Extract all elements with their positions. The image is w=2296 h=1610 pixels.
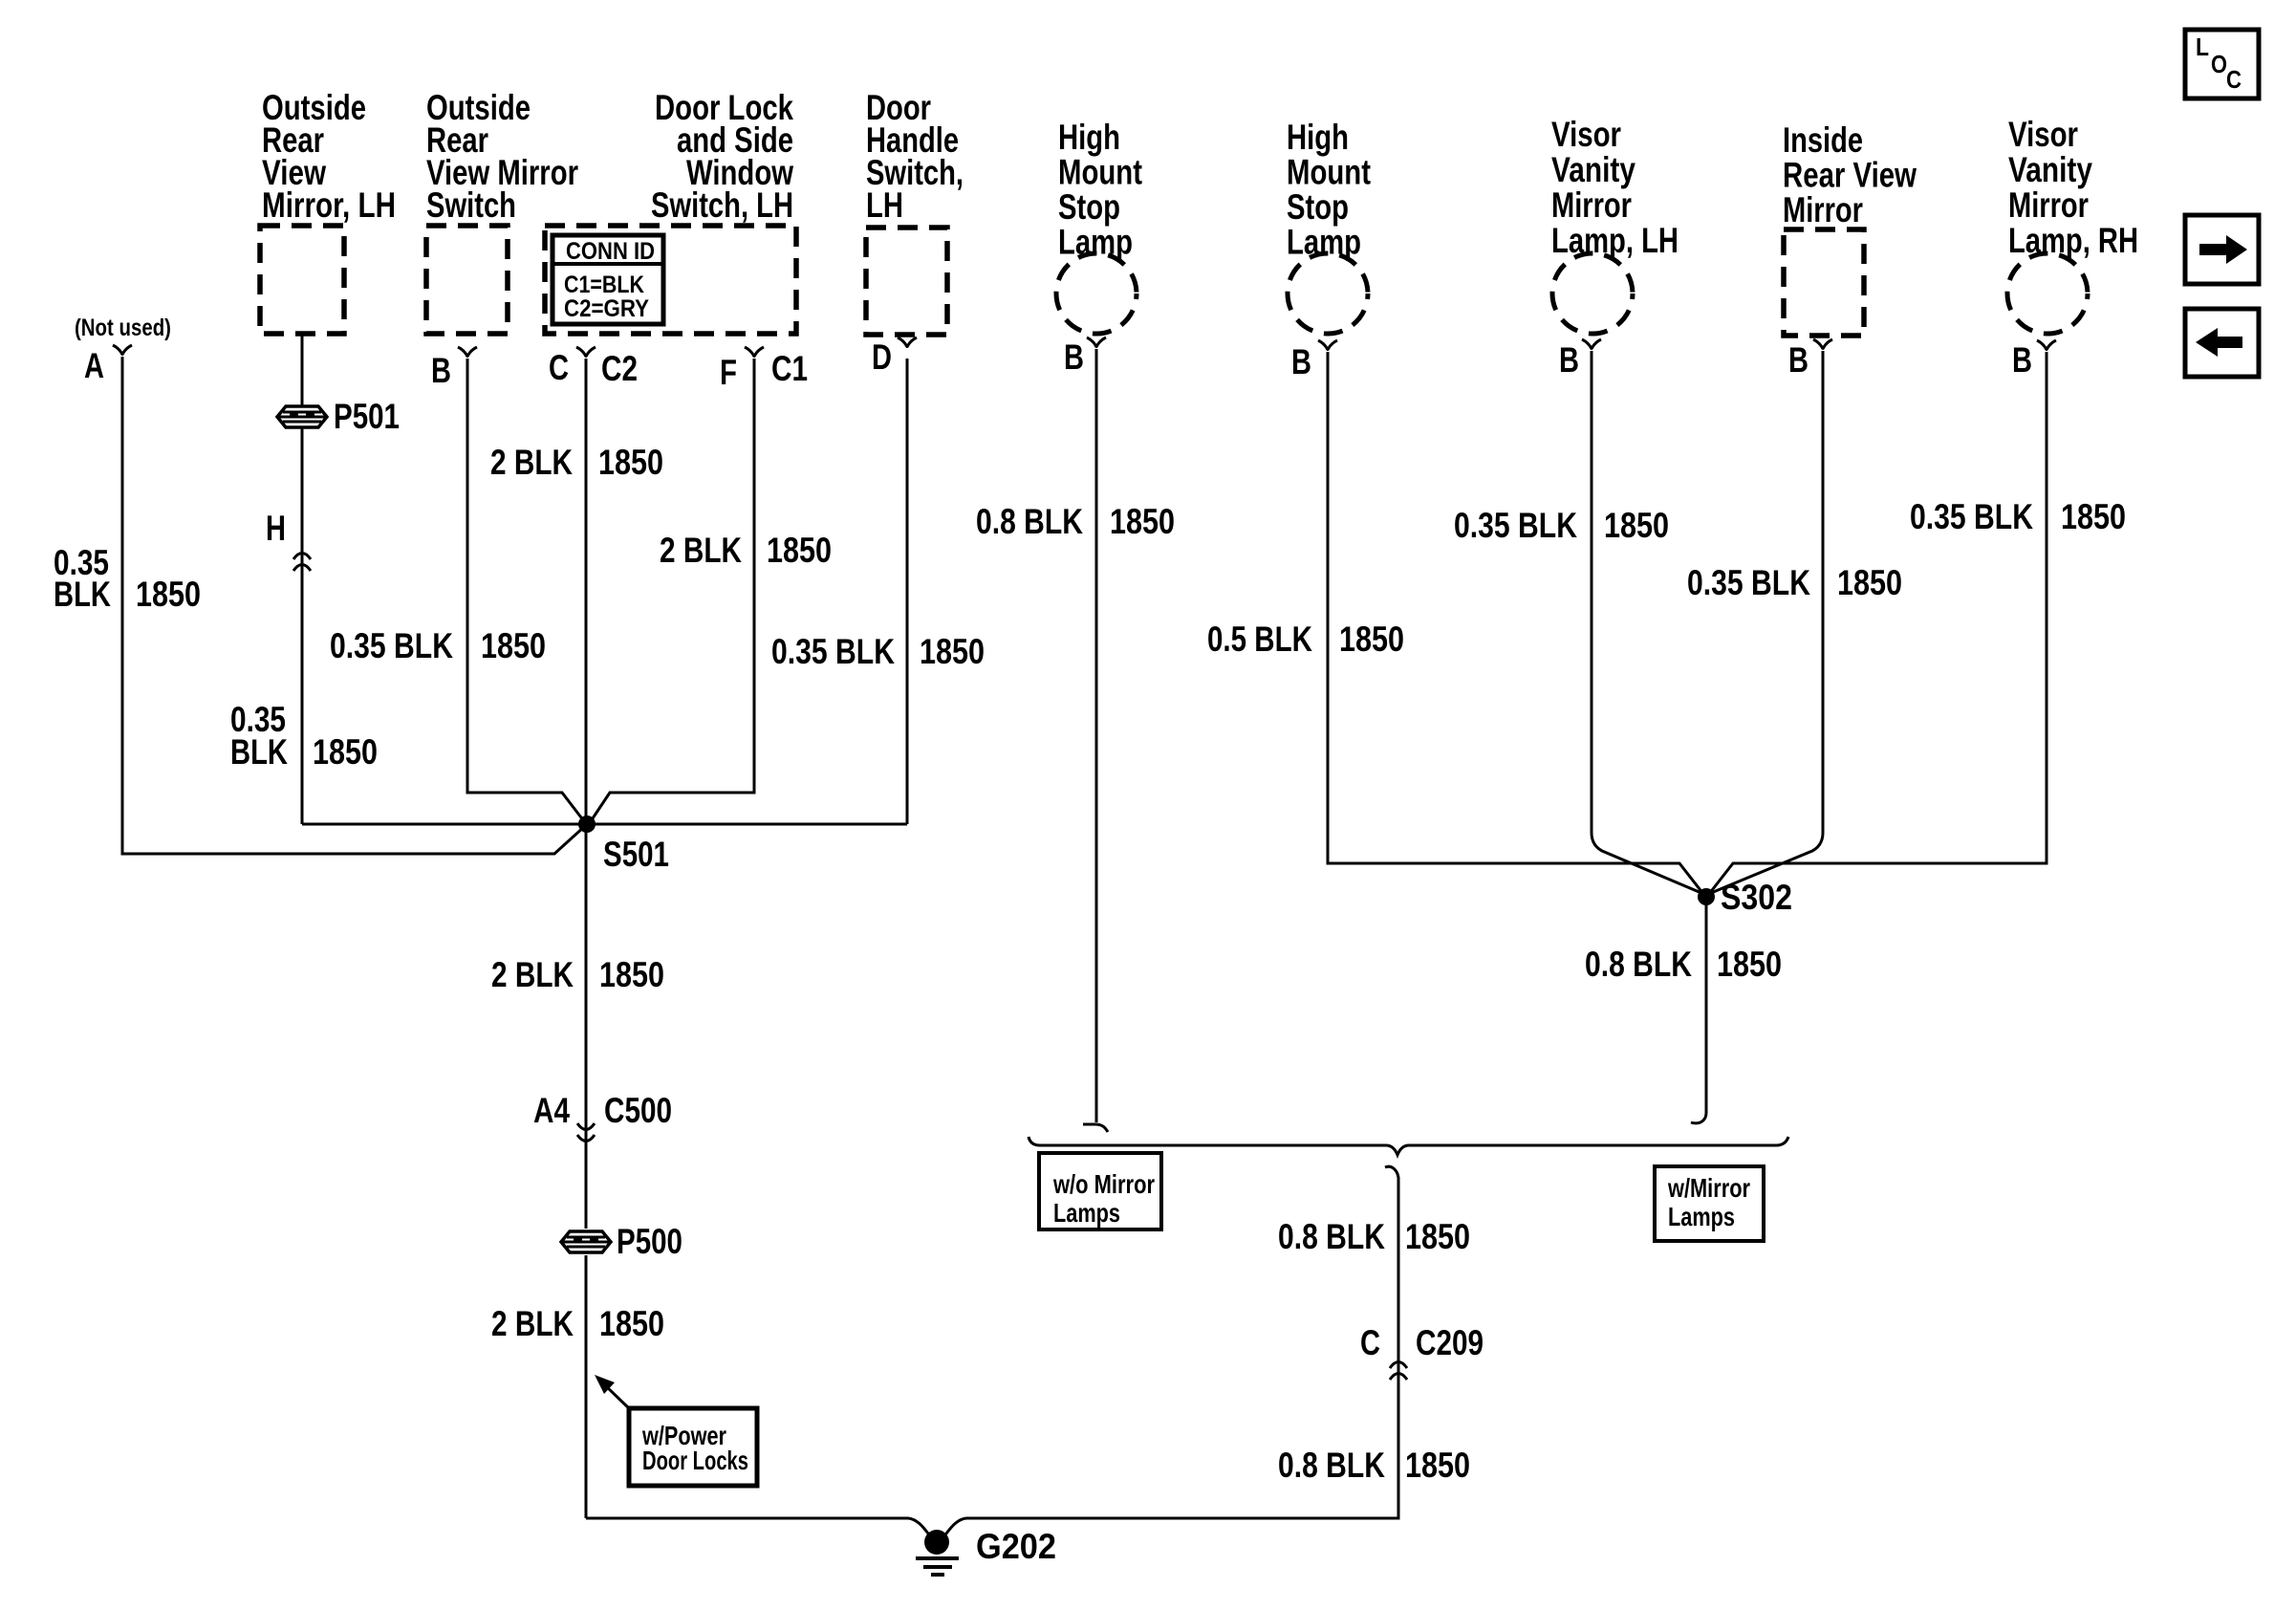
svg-text:0.35 BLK: 0.35 BLK	[330, 626, 453, 665]
splice S501	[578, 816, 596, 833]
pin fork A	[113, 345, 132, 355]
svg-text:1850: 1850	[1110, 502, 1175, 541]
wire from P500 right to G202	[586, 1518, 933, 1539]
svg-text:1850: 1850	[1339, 620, 1404, 659]
svg-text:C2=GRY: C2=GRY	[564, 295, 649, 322]
svg-text:0.8 BLK: 0.8 BLK	[1278, 1217, 1385, 1256]
svg-text:CONN ID: CONN ID	[566, 238, 655, 265]
svg-text:C500: C500	[604, 1091, 672, 1130]
svg-text:B: B	[1291, 342, 1311, 381]
svg-text:w/Mirror: w/Mirror	[1667, 1173, 1750, 1203]
pin fork B visor LH	[1582, 339, 1601, 349]
svg-text:F: F	[720, 353, 737, 392]
svg-text:A: A	[84, 346, 104, 385]
svg-text:1850: 1850	[313, 732, 378, 772]
svg-text:G202: G202	[976, 1527, 1056, 1566]
svg-text:1850: 1850	[1837, 563, 1902, 602]
svg-text:BLK: BLK	[54, 575, 111, 614]
connector box: Inside Rear View Mirror	[1784, 229, 1864, 336]
svg-text:High: High	[1058, 118, 1120, 157]
lamp symbol: Visor Vanity Mirror Lamp, RH	[2007, 253, 2088, 334]
wire inside mirror to S302	[1711, 351, 1823, 893]
connector chevron C209 (lower)	[1390, 1374, 1407, 1381]
pin fork C2	[576, 347, 596, 357]
svg-text:P501: P501	[334, 397, 400, 436]
svg-text:1850: 1850	[599, 1304, 664, 1343]
LOC legend box	[2185, 30, 2259, 98]
option box: w/o Mirror Lamps	[1039, 1153, 1161, 1229]
svg-text:2 BLK: 2 BLK	[491, 1304, 574, 1343]
svg-text:B: B	[1788, 340, 1809, 380]
svg-text:Mount: Mount	[1287, 153, 1371, 192]
svg-text:O: O	[2211, 50, 2227, 78]
grommet P500	[561, 1231, 611, 1252]
svg-text:B: B	[1064, 337, 1084, 377]
svg-text:1850: 1850	[2061, 497, 2126, 536]
lamp symbol: High Mount Stop Lamp (1)	[1056, 253, 1137, 334]
wire visor RH to S302	[1709, 352, 2047, 894]
connector chevron H (lower)	[293, 565, 311, 572]
wire S302 down to splice bus with hook	[1691, 897, 1706, 1123]
svg-text:Vanity: Vanity	[2008, 150, 2092, 189]
svg-text:C2: C2	[601, 349, 638, 388]
svg-text:1850: 1850	[1405, 1217, 1470, 1256]
wire stop lamp 2 to S302	[1328, 352, 1703, 894]
svg-text:Visor: Visor	[2008, 115, 2078, 154]
svg-text:0.35 BLK: 0.35 BLK	[1910, 497, 2033, 536]
pin fork B lamp2	[1318, 340, 1337, 350]
lamp symbol: Visor Vanity Mirror Lamp, LH	[1552, 253, 1633, 334]
svg-text:C209: C209	[1416, 1323, 1484, 1362]
pin fork B inside mirror	[1813, 339, 1832, 349]
svg-text:0.35 BLK: 0.35 BLK	[1454, 506, 1577, 545]
left arrow box	[2185, 309, 2259, 377]
svg-text:Stop: Stop	[1287, 187, 1349, 227]
svg-text:C: C	[1360, 1323, 1380, 1362]
CONN ID table	[552, 235, 663, 324]
svg-text:1850: 1850	[599, 955, 664, 994]
svg-text:BLK: BLK	[230, 732, 288, 772]
connector box: Outside Rear View Mirror Switch	[426, 226, 508, 334]
svg-text:Inside: Inside	[1783, 120, 1863, 160]
svg-text:Mirror: Mirror	[1783, 190, 1863, 229]
wire C2 / main ground wire through S501, C500, P500	[585, 359, 588, 1518]
svg-text:2 BLK: 2 BLK	[660, 531, 742, 570]
option box: w/Power Door Locks	[629, 1408, 757, 1486]
svg-text:1850: 1850	[481, 626, 546, 665]
svg-text:0.5 BLK: 0.5 BLK	[1207, 620, 1312, 659]
svg-text:Visor: Visor	[1551, 115, 1621, 154]
pin fork B visor RH	[2037, 340, 2056, 350]
svg-text:S501: S501	[603, 835, 669, 874]
wire bus through S501	[302, 823, 907, 826]
wire hook stop lamp 1	[1083, 1124, 1108, 1132]
svg-text:D: D	[872, 337, 892, 377]
svg-text:Door Locks: Door Locks	[642, 1446, 748, 1475]
wire H: mirror LH to S501 via P501	[301, 334, 304, 824]
wire C209 down and left to G202	[942, 1177, 1398, 1539]
svg-text:B: B	[431, 351, 451, 390]
pin fork B	[458, 347, 477, 357]
svg-text:Mirror, LH: Mirror, LH	[262, 185, 396, 225]
svg-text:Lamps: Lamps	[1053, 1198, 1120, 1228]
option box: w/Mirror Lamps	[1655, 1166, 1764, 1241]
wire A (not used) to S501	[122, 357, 585, 854]
svg-text:Stop: Stop	[1058, 187, 1120, 227]
wire visor LH to S302	[1592, 351, 1701, 893]
svg-text:Vanity: Vanity	[1551, 150, 1635, 189]
connector box: Door Handle Switch, LH	[866, 228, 947, 335]
svg-text:w/o Mirror: w/o Mirror	[1052, 1169, 1155, 1199]
svg-text:(Not used): (Not used)	[75, 315, 171, 341]
svg-text:Switch: Switch	[426, 185, 516, 225]
svg-text:C1: C1	[771, 349, 808, 388]
connector box: Door Lock and Side Window Switch, LH	[545, 226, 796, 334]
svg-text:1850: 1850	[1717, 945, 1782, 984]
splice S302	[1698, 888, 1715, 905]
svg-text:Rear View: Rear View	[1783, 156, 1917, 195]
right arrow box	[2185, 215, 2259, 284]
connector chevron C500 (lower)	[577, 1135, 595, 1142]
svg-text:2 BLK: 2 BLK	[491, 955, 574, 994]
svg-text:C: C	[549, 348, 569, 387]
svg-text:High: High	[1287, 118, 1349, 157]
wire C1 to S501	[591, 359, 754, 821]
svg-text:H: H	[266, 509, 286, 548]
option arrow to ground wire	[606, 1386, 630, 1409]
svg-text:Lamps: Lamps	[1668, 1202, 1735, 1231]
pin fork B lamp1	[1087, 337, 1106, 347]
lamp symbol: High Mount Stop Lamp (2)	[1288, 253, 1368, 334]
svg-text:Switch, LH: Switch, LH	[651, 185, 793, 225]
svg-text:0.8 BLK: 0.8 BLK	[1278, 1446, 1385, 1485]
svg-text:S302: S302	[1721, 878, 1792, 917]
svg-text:C1=BLK: C1=BLK	[564, 272, 644, 298]
svg-text:Mirror: Mirror	[1551, 185, 1632, 225]
connector chevron H (upper)	[293, 554, 311, 560]
pin fork C1	[745, 347, 764, 357]
svg-text:P500: P500	[617, 1222, 682, 1261]
connector chevron C500 (upper)	[577, 1123, 595, 1130]
svg-text:B: B	[1559, 340, 1579, 380]
svg-text:A4: A4	[533, 1091, 570, 1130]
svg-text:Lamp, LH: Lamp, LH	[1551, 221, 1679, 260]
connector chevron C209 (upper)	[1390, 1362, 1407, 1369]
hook at top of C209 wire	[1385, 1166, 1398, 1178]
wire D to S501 bus	[906, 359, 909, 824]
svg-text:1850: 1850	[1604, 506, 1669, 545]
svg-text:Lamp, RH: Lamp, RH	[2008, 221, 2138, 260]
ground G202	[924, 1530, 949, 1555]
splice brace bus	[1029, 1137, 1788, 1155]
svg-text:1850: 1850	[1405, 1446, 1470, 1485]
connector box: Outside Rear View Mirror, LH	[260, 226, 344, 334]
svg-text:0.35 BLK: 0.35 BLK	[771, 632, 895, 671]
svg-text:Mirror: Mirror	[2008, 185, 2089, 225]
svg-text:2 BLK: 2 BLK	[490, 443, 573, 482]
svg-text:0.8 BLK: 0.8 BLK	[1585, 945, 1692, 984]
pin fork D	[898, 337, 917, 347]
svg-text:C: C	[2226, 65, 2242, 94]
svg-text:0.8 BLK: 0.8 BLK	[976, 502, 1083, 541]
svg-text:1850: 1850	[598, 443, 663, 482]
svg-text:1850: 1850	[920, 632, 985, 671]
svg-text:Mount: Mount	[1058, 153, 1142, 192]
wire B to S501	[467, 359, 584, 821]
svg-text:0.35 BLK: 0.35 BLK	[1687, 563, 1810, 602]
svg-text:LH: LH	[866, 185, 903, 225]
wire stop lamp 1 down to splice bus	[1095, 349, 1098, 1122]
svg-text:1850: 1850	[136, 575, 201, 614]
svg-text:L: L	[2196, 33, 2209, 61]
svg-text:1850: 1850	[767, 531, 832, 570]
grommet P501	[277, 406, 327, 427]
svg-text:B: B	[2012, 340, 2032, 380]
